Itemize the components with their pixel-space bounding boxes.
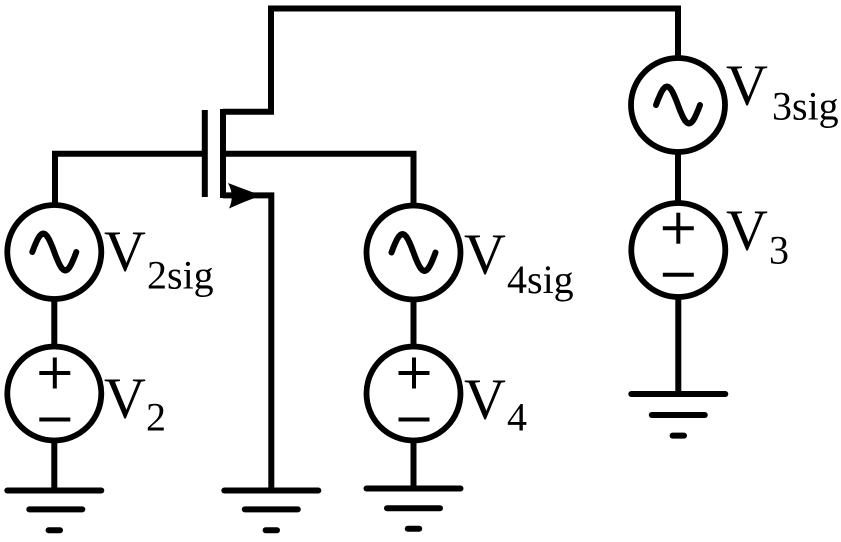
ground (under V2) <box>7 491 101 531</box>
label V2sig <box>104 219 214 298</box>
wire: V4 to ground <box>411 441 417 488</box>
ground (under V4) <box>367 489 461 529</box>
svg-text:V: V <box>104 219 146 284</box>
AC source V2sig <box>7 205 101 299</box>
svg-text:V: V <box>726 53 768 118</box>
svg-text:4sig: 4sig <box>507 257 574 302</box>
svg-text:3sig: 3sig <box>772 84 839 129</box>
DC source V3 <box>631 203 725 297</box>
svg-text:4: 4 <box>507 395 527 440</box>
svg-text:V: V <box>726 198 768 263</box>
ground (under V3) <box>631 394 725 436</box>
transistor M1 channel bar <box>220 109 226 198</box>
wire: V3sig to V3 <box>675 152 681 203</box>
wire: source leg and down to ground <box>223 195 271 490</box>
svg-text:V: V <box>464 222 506 287</box>
svg-text:3: 3 <box>769 228 789 273</box>
label V3sig <box>726 53 839 129</box>
DC source V4 <box>367 347 461 441</box>
svg-text:V: V <box>464 367 506 432</box>
AC source V3sig <box>631 58 725 152</box>
label V2 <box>104 366 166 440</box>
DC source V2 <box>7 347 101 441</box>
wire: gate lead left and down to V2sig <box>55 154 206 204</box>
label V4sig <box>464 222 574 303</box>
transistor M1 source arrow <box>228 183 262 209</box>
wire: V3 to ground <box>675 296 681 393</box>
label V3 <box>726 198 789 273</box>
transistor M1 gate bar <box>202 110 208 197</box>
ground (under source) <box>224 491 318 531</box>
AC source V4sig <box>367 206 461 300</box>
svg-text:2: 2 <box>146 395 166 440</box>
svg-text:2sig: 2sig <box>147 253 214 298</box>
wire: drain leg up and top rail over to V3sig <box>223 9 678 112</box>
wire: V2 to ground <box>51 441 57 490</box>
label V4 <box>464 367 527 440</box>
svg-text:V: V <box>104 366 146 431</box>
wire: body leg right and down to V4sig <box>223 154 414 204</box>
wire: V4sig to V4 <box>411 300 417 346</box>
wire: V2sig to V2 <box>51 300 57 346</box>
